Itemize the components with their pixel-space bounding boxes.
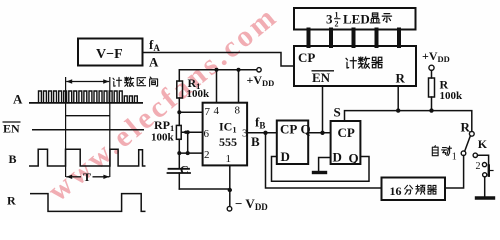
svg-text:D: D [281, 149, 290, 164]
svg-text:Q: Q [301, 122, 311, 137]
svg-text:C: C [180, 163, 189, 177]
waveform A pulse comb [39, 91, 138, 103]
label 自动 (auto) [432, 146, 438, 156]
svg-text:LED: LED [343, 12, 370, 27]
wire S line to R network [345, 111, 472, 132]
watermark www.elecfans.com [42, 0, 285, 209]
svg-text:R: R [7, 194, 16, 208]
svg-text:EN: EN [312, 70, 331, 85]
pushbutton bar K [488, 166, 490, 176]
svg-text:100k: 100k [440, 90, 464, 102]
resistor R 100k (right) [431, 70, 433, 78]
block 3 1/2 LED display [294, 8, 416, 30]
wire FF1 D feedback from FF2 Q [272, 157, 370, 182]
svg-text:CP: CP [280, 122, 297, 137]
wire pin3 output fB [247, 132, 277, 134]
waveform B [29, 149, 146, 166]
wire FF1 Q to FF2 CP [308, 132, 330, 134]
wire pin1 down [229, 165, 231, 206]
wire pin4 to rail [216, 70, 218, 103]
label 计数器 (counter) [346, 57, 356, 68]
svg-text:R: R [396, 71, 406, 86]
svg-text:4: 4 [214, 105, 220, 117]
wire 555 ground bottom [179, 188, 230, 190]
svg-text:IC1: IC1 [219, 120, 237, 135]
wire counter EN output down to FF junction [322, 86, 324, 133]
svg-text:K: K [478, 137, 488, 151]
contact 2 upper [482, 163, 486, 167]
measure arrow counting interval [66, 81, 109, 83]
bus bars LED display to counter [309, 30, 400, 47]
svg-text:+VDD: +VDD [422, 49, 450, 64]
svg-text:V−F: V−F [96, 47, 123, 62]
svg-text:2: 2 [335, 20, 339, 29]
switch lever and pole R [469, 131, 474, 136]
svg-text:100k: 100k [151, 132, 175, 144]
wire to ground [484, 177, 486, 197]
wiper wire pin6 [182, 131, 203, 133]
wire pin8 to rail [238, 70, 240, 103]
waveform EN line [32, 129, 144, 131]
svg-text:2: 2 [476, 161, 481, 172]
waveform EN gate high segment [66, 115, 110, 117]
svg-text:16: 16 [390, 184, 402, 198]
dashed interval line left [65, 77, 67, 177]
svg-text:7: 7 [205, 106, 211, 118]
svg-text:100k: 100k [187, 88, 211, 100]
wire fA from V-F to counter CP [143, 53, 295, 67]
wire contact 1 to divider [445, 156, 464, 189]
waveform R [30, 194, 146, 212]
contact K [473, 153, 477, 157]
block divider 16 [382, 178, 446, 201]
svg-text:1: 1 [335, 11, 339, 20]
svg-text:3: 3 [326, 12, 333, 27]
power rail +VDD over 555 [179, 70, 256, 81]
svg-text:fB: fB [255, 115, 265, 131]
IC U1 555 [203, 103, 248, 166]
potentiometer RP1 100k [176, 125, 181, 139]
svg-text:fA: fA [149, 37, 160, 53]
contact 2 lower [483, 173, 487, 177]
dashed interval line right [109, 77, 111, 177]
wire wiper to pin2 [187, 132, 189, 153]
terminal +VDD (555) [257, 68, 261, 72]
ground (FF2 D) [314, 171, 326, 174]
svg-text:B: B [251, 134, 260, 149]
svg-text:3: 3 [242, 128, 248, 140]
svg-text:+VDD: +VDD [247, 73, 275, 88]
label 计数区间 [113, 77, 122, 86]
svg-text:555: 555 [219, 135, 237, 149]
svg-text:D: D [333, 150, 342, 165]
wire fB down to divider [266, 133, 382, 188]
svg-text:T: T [83, 170, 91, 184]
resistor R1 100k [177, 81, 183, 98]
svg-text:1: 1 [452, 152, 457, 163]
wire pin2 [179, 152, 202, 154]
svg-text:CP: CP [338, 125, 355, 140]
terminal +VDD (right) [429, 65, 434, 70]
svg-text:2: 2 [204, 149, 210, 161]
label 分频器 (divider) [405, 185, 413, 194]
block counter [294, 46, 416, 86]
svg-text:CP: CP [298, 50, 315, 65]
wire FF2 D to ground [319, 158, 331, 172]
wire pin7 [179, 111, 202, 113]
svg-text:8: 8 [235, 105, 241, 117]
svg-text:− VDD: − VDD [235, 196, 268, 212]
waveform A baseline [29, 102, 143, 104]
measure arrow T [66, 176, 81, 178]
svg-text:B: B [9, 152, 17, 166]
svg-text:A: A [149, 55, 159, 70]
svg-text:6: 6 [204, 128, 210, 140]
svg-text:R: R [461, 120, 471, 135]
capacitor C [169, 168, 190, 170]
svg-text:S: S [334, 105, 341, 120]
svg-text:Q: Q [349, 151, 359, 166]
ground (switch) [477, 196, 494, 199]
flip-flop FF2 [331, 121, 361, 164]
terminal -VDD [227, 206, 232, 211]
svg-text:A: A [13, 92, 23, 107]
block V-F converter [78, 39, 143, 66]
svg-text:1: 1 [226, 153, 232, 165]
label 显示 (LED display) [370, 13, 380, 23]
svg-text:EN: EN [3, 122, 20, 136]
flip-flop FF1 [277, 121, 308, 165]
wire counter R output down [397, 86, 399, 111]
